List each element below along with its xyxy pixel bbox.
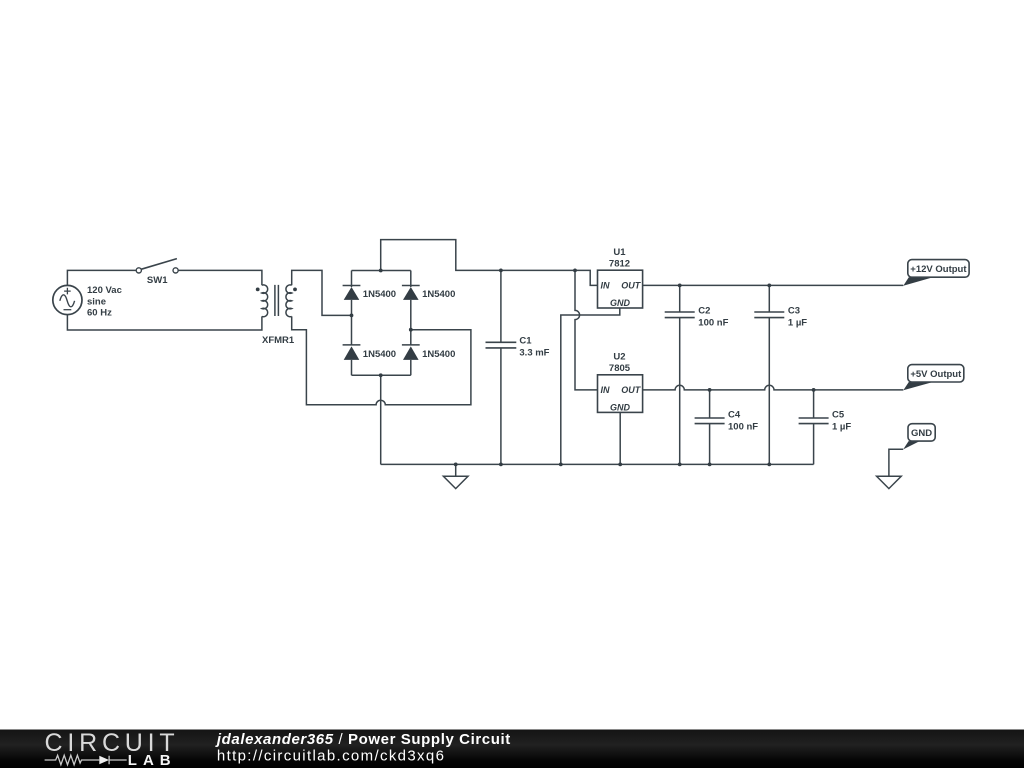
svg-text:SW1: SW1 [147,275,168,286]
svg-text:100 nF: 100 nF [698,317,728,328]
wire secondary bottom to bridge right node (hump over x=380.7) [292,316,471,404]
node +5V rail C5 [812,388,816,392]
svg-text:+12V Output: +12V Output [910,264,967,275]
svg-text:60 Hz: 60 Hz [87,307,112,318]
label C1 3.3 mF [519,336,549,359]
node ground rail C1 [499,463,503,467]
op-amp U1 box 7812 [598,270,643,308]
wire bridge top loop to C1 and U1 IN [381,240,598,286]
svg-text:7812: 7812 [609,258,630,269]
svg-text:100 nF: 100 nF [728,421,758,432]
wire U1 GND to ground rail [561,308,620,464]
svg-text:GND: GND [911,428,932,439]
wire bridge bottom rail [352,374,411,376]
svg-text:C4: C4 [728,409,741,420]
svg-text:U1: U1 [613,247,626,258]
ground symbol at GND flag [877,476,902,488]
svg-text:http://circuitlab.com/ckd3xq6: http://circuitlab.com/ckd3xq6 [217,747,445,764]
wire switch to transformer primary [178,270,262,285]
node +5V rail C4 [708,388,712,392]
node +12V rail C2 [678,284,682,288]
node ground rail U2 gnd [618,463,622,467]
voltage source V1 [53,285,82,314]
wire U1 input node down to U2 IN (hump over y=315) [575,270,598,390]
svg-text:GND: GND [610,403,631,413]
svg-text:1N5400: 1N5400 [363,289,396,300]
transformer dots [256,288,260,292]
svg-text:C2: C2 [698,305,710,316]
svg-text:+5V Output: +5V Output [910,369,962,380]
node ground rail at gnd symbol [454,463,458,467]
svg-text:1 µF: 1 µF [788,317,807,328]
label U2 7805 [609,352,631,374]
node ground rail C2 [678,463,682,467]
label U1 7812 [609,247,630,269]
wire bridge top rail [352,270,411,272]
svg-text:LAB: LAB [128,752,177,768]
svg-text:GND: GND [610,298,631,308]
wire U1 OUT +12V rail [643,284,904,286]
capacitor C5 [799,418,829,424]
svg-text:C3: C3 [788,305,800,316]
diode D1 top-left [343,271,361,316]
flag +12V Output [903,260,969,286]
svg-text:jdalexander365 / Power Supply: jdalexander365 / Power Supply Circuit [215,731,511,748]
wire GND flag to ground symbol [889,449,903,476]
pin labels U1 [601,281,642,309]
wire C5 branch [813,390,815,465]
svg-text:OUT: OUT [621,281,642,291]
wire U2 GND to ground rail [619,412,621,464]
label C3 1 uF [788,305,807,328]
capacitor C1 [486,342,517,348]
svg-text:XFMR1: XFMR1 [262,335,295,346]
wire source top to switch [67,270,136,285]
node ground rail U1 gnd [559,463,563,467]
node +12V rail C3 [767,284,771,288]
wire C1 branch [500,270,502,464]
svg-text:7805: 7805 [609,363,631,374]
footer bar [0,730,1024,768]
pin labels U2 [601,385,642,413]
svg-text:C5: C5 [832,409,845,420]
switch SW1 [136,259,178,273]
wire C3 branch [768,285,770,464]
diode D3 top-right [402,271,420,330]
capacitor C3 [754,312,784,318]
node C1 top [499,269,503,273]
node bridge top center [379,269,383,273]
wire secondary top to bridge left node [292,270,352,315]
svg-text:1 µF: 1 µF [832,421,851,432]
transformer XFMR1 [262,285,292,317]
CircuitLab logo resistor-diode glyph [45,755,127,765]
op-amp U2 box 7805 [598,375,643,413]
node bridge left middle [350,314,354,318]
flag GND [903,424,935,450]
flag +5V Output [903,365,964,391]
svg-text:sine: sine [87,296,106,307]
node bridge bottom center [379,373,383,377]
wire C4 branch [709,390,711,465]
wire C2 branch [679,285,681,464]
svg-text:OUT: OUT [621,385,642,395]
diode D4 bottom-right [402,330,420,376]
label C5 1 uF [832,409,851,432]
svg-text:1N5400: 1N5400 [363,349,396,360]
svg-text:1N5400: 1N5400 [422,349,455,360]
diode D2 bottom-left [343,315,361,375]
node U1 input branch [573,269,577,273]
svg-text:IN: IN [601,281,611,291]
wire U2 OUT +5V rail (humps over C2,C3) [643,385,904,390]
svg-text:120 Vac: 120 Vac [87,285,122,296]
label 120 Vac sine 60 Hz [87,285,122,318]
svg-text:1N5400: 1N5400 [422,289,455,300]
node ground rail C4 [708,463,712,467]
node bridge right middle [409,328,413,332]
svg-text:3.3 mF: 3.3 mF [519,348,549,359]
node ground rail C3 [767,463,771,467]
capacitor C4 [695,418,725,424]
label C2 100 nF [698,305,728,328]
label C4 100 nF [728,409,758,432]
primary winding [262,285,268,317]
core [275,285,279,316]
svg-text:C1: C1 [519,336,532,347]
wire bridge bottom to ground rail [380,375,382,464]
svg-text:IN: IN [601,385,611,395]
ground symbol main [443,464,468,488]
svg-text:U2: U2 [613,352,625,363]
wire ground rail [381,463,814,465]
node junction dots [350,269,816,467]
secondary winding [286,285,292,317]
wire primary bottom loop back to source [67,315,262,330]
capacitor C2 [665,312,695,318]
